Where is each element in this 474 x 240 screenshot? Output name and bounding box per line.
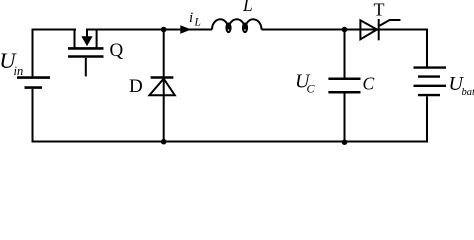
svg-text:L: L bbox=[242, 0, 253, 15]
wire top rail right bbox=[262, 29, 428, 31]
node junction dot top (diode) bbox=[161, 27, 167, 33]
battery U_bat long plate 2 bbox=[414, 85, 447, 87]
wire left rail lower bbox=[32, 89, 34, 143]
transistor Q gate bar bbox=[68, 55, 104, 58]
svg-text:i: i bbox=[189, 10, 193, 26]
thyristor T gate lead bbox=[380, 20, 401, 26]
wire bottom rail bbox=[32, 141, 428, 143]
capacitor C bottom plate bbox=[328, 91, 360, 94]
svg-text:C: C bbox=[363, 74, 375, 94]
transistor Q source lead bbox=[96, 30, 98, 49]
node junction dot bottom (capacitor) bbox=[342, 139, 348, 145]
svg-text:L: L bbox=[194, 17, 201, 29]
transistor Q arrow head bbox=[81, 36, 92, 46]
wire right rail lower bbox=[426, 96, 428, 142]
thyristor T cathode bar bbox=[378, 19, 380, 40]
svg-text:C: C bbox=[307, 82, 316, 96]
diode D cathode bar bbox=[151, 76, 174, 79]
svg-text:bat: bat bbox=[462, 87, 474, 98]
wire capacitor branch upper bbox=[344, 30, 346, 79]
capacitor C top plate bbox=[328, 77, 360, 80]
wire capacitor branch lower bbox=[344, 92, 346, 141]
inductor L coil bbox=[212, 19, 262, 29]
thyristor T triangle bbox=[360, 20, 377, 39]
transistor Q gate lead bbox=[85, 58, 87, 77]
svg-text:Q: Q bbox=[110, 40, 124, 61]
svg-text:T: T bbox=[374, 0, 385, 20]
transistor Q arrow stem bbox=[86, 30, 88, 38]
battery U_bat long plate 1 bbox=[414, 66, 447, 68]
battery U_bat short plate 1 bbox=[418, 75, 440, 77]
current arrow i_L bbox=[180, 25, 191, 34]
wire diode branch bbox=[163, 30, 165, 142]
svg-text:in: in bbox=[14, 64, 24, 78]
wire top rail middle bbox=[86, 29, 212, 31]
wire top-left rail bbox=[32, 29, 77, 31]
svg-text:D: D bbox=[129, 76, 143, 97]
battery U_bat short plate 2 bbox=[418, 94, 440, 96]
diode D triangle bbox=[149, 79, 174, 96]
wire right rail upper bbox=[426, 29, 428, 68]
node junction dot top (capacitor) bbox=[342, 27, 348, 33]
battery U_in long plate bbox=[17, 76, 50, 79]
wire left rail upper bbox=[32, 29, 34, 77]
inductor L curl 2 bbox=[243, 24, 247, 33]
transistor Q channel bar bbox=[68, 47, 104, 50]
battery U_in short plate bbox=[25, 86, 43, 89]
transistor Q drain lead bbox=[74, 30, 76, 49]
node junction dot bottom (diode) bbox=[161, 139, 167, 145]
inductor L curl 1 bbox=[226, 24, 230, 33]
